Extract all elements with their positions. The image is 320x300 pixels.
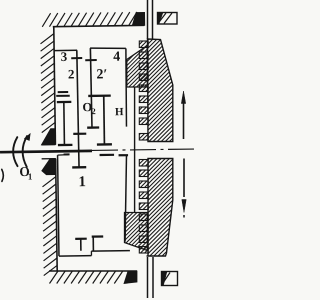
planet column C stem (x=92): [90, 48, 92, 127]
box bottom step: [90, 251, 92, 255]
gear 3 column stem with end caps: [63, 103, 66, 145]
screw top shaft: [147, 0, 149, 39]
svg-text:4: 4: [113, 50, 120, 65]
fixed frame: left wall upper line: [54, 27, 56, 145]
box lower-left top short edge: [58, 154, 69, 156]
box lower-left vertical edge: [58, 155, 59, 256]
mesh tick on column B at gear 1: [73, 133, 86, 135]
fixed frame: ceiling dark wedge at right end: [132, 12, 145, 25]
svg-text:H: H: [115, 106, 124, 118]
rotation arc 1 on shaft O1: [13, 137, 18, 166]
motion arrow up (right side, upper): [183, 103, 185, 139]
gear 3 column: double tick (fixed symbol): [58, 91, 68, 93]
nut drum wall line: [134, 87, 136, 212]
svg-text:1: 1: [78, 174, 86, 190]
fixed frame: left wall upper hatching: [40, 34, 55, 133]
gear 4 box top edge: [90, 48, 126, 49]
screw thread teeth (left side): [139, 41, 148, 253]
shaft O1: input shaft thick line: [0, 151, 92, 152]
svg-text:2′: 2′: [96, 67, 107, 82]
motion arrow down (right side, lower): [183, 159, 185, 198]
box lower-right top short bar: [119, 154, 129, 156]
gear 2 / planet column B stem (x=78): [77, 50, 79, 167]
fixed frame: left wall lower top edge: [42, 158, 56, 160]
bottom gear T column: [80, 239, 82, 251]
svg-text:1: 1: [28, 171, 33, 181]
fixed frame: ceiling bearing block right of shaft: [158, 13, 178, 25]
stray arc fragment at left edge: [2, 169, 4, 181]
svg-text:3: 3: [61, 49, 68, 64]
screw body lower outline: [147, 159, 173, 257]
gear 4 box right edge upper: [125, 48, 127, 126]
fixed frame: left wall upper dark wedge: [41, 129, 55, 145]
fixed frame: ceiling hatching: [42, 12, 137, 27]
fixed frame: floor line: [49, 270, 137, 272]
gear 3 box top edge: [54, 49, 77, 51]
gear 1 bottom cap: [72, 166, 86, 169]
screw bottom shaft: [147, 257, 149, 298]
column C bottom cap: [87, 126, 99, 128]
carrier H stem: [103, 96, 106, 145]
mesh tick on column C: [85, 59, 96, 61]
small tick below centerline left: [64, 153, 70, 155]
fixed frame: floor bearing block right of bottom shaft: [162, 272, 178, 286]
fixed frame: left wall lower line: [56, 159, 58, 272]
svg-text:2: 2: [68, 66, 75, 81]
axis centerline (dash-dot) to the right: [92, 149, 196, 150]
fixed frame: floor hatching: [50, 271, 123, 284]
carrier H mirror bar below centerline: [100, 154, 114, 156]
svg-text:2: 2: [91, 106, 95, 116]
screw body hatching lower (incl. teeth): [0, 159, 320, 300]
mesh tick on column B top: [71, 57, 82, 59]
box lower-right vertical edge: [124, 156, 128, 242]
fixed frame: left wall lower hatching: [42, 177, 57, 276]
fixed frame: wall upper bottom edge: [41, 144, 55, 146]
carrier H top bar: [88, 94, 110, 97]
rotation arc 2 with arrowhead on shaft O1: [22, 136, 27, 167]
box bottom edge right part: [91, 250, 129, 253]
fixed frame: left wall lower dark wedge: [42, 159, 56, 175]
box bottom edge left part: [59, 255, 91, 257]
fixed frame: ceiling line: [53, 25, 144, 26]
screw body upper outline: [148, 39, 173, 142]
fixed frame: floor dark wedge at right end: [124, 271, 137, 284]
nut upper wedge (gear 4 hub top): [127, 46, 148, 88]
nut lower wedge (gear 4 hub bottom): [125, 213, 148, 251]
bottom corner column: [92, 237, 94, 251]
carrier H bottom cap: [97, 143, 112, 146]
